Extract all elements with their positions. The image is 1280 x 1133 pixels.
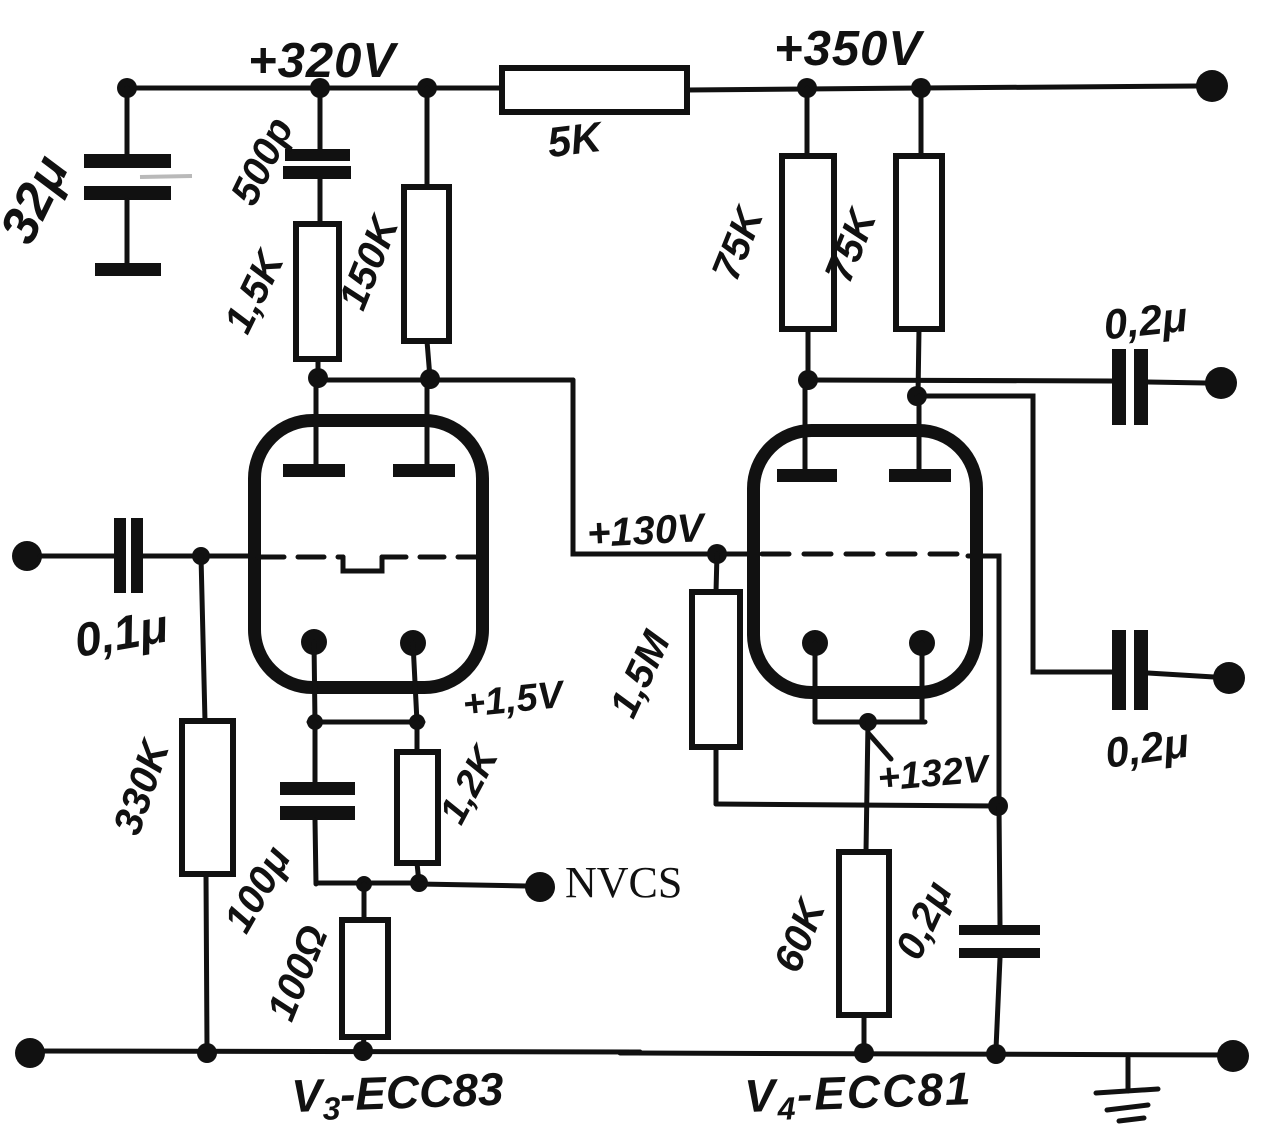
resistor 330K [182,556,233,1049]
value label 5K [545,113,607,167]
resistor 75K right [896,88,942,396]
node grid2 junction [988,796,1008,816]
svg-text:0,2μ: 0,2μ [1102,719,1191,777]
label V3 = ECC83 [291,1063,505,1128]
tube V4 grid dashed line [762,552,968,557]
node terminal top right [1196,70,1228,102]
label +350V [774,22,925,76]
value label 60K [766,891,835,978]
value label 330K [105,732,179,840]
node rail at 60K [854,1043,874,1063]
tube V3 ECC83 envelope [255,421,483,688]
ground [1096,1058,1158,1121]
label +132V with arrow [869,734,993,800]
label +320V [248,34,399,88]
value label 500p [223,111,303,212]
value label 100ohm [259,919,336,1026]
svg-text:75K: 75K [704,199,773,286]
node on rail at 500p cap [310,78,330,98]
node rail at 0.2u [986,1044,1006,1064]
node V3 cathode right junction [409,714,425,730]
svg-text:V3-ECC83: V3-ECC83 [291,1063,505,1128]
wire V4 grid2 exit right [968,556,999,806]
tube V4 cathode right [909,630,935,722]
svg-text:500p: 500p [223,111,303,212]
resistor 1.5M [692,554,740,804]
value label 150K [331,208,409,316]
node NVCS junction [410,874,428,892]
wire V3 anode bus [318,378,573,383]
node terminal bottom left [15,1038,45,1068]
svg-text:+132V: +132V [876,748,993,800]
wire ground rail [30,1051,1233,1055]
svg-text:1,2K: 1,2K [432,738,508,831]
tube V4 right anode [889,396,951,482]
wire V4 cathode to 60K [866,722,868,852]
node V4 cathode junction [859,713,877,731]
svg-text:+350V: +350V [774,22,925,76]
node on rail at 150K [417,78,437,98]
svg-text:V4-ECC81: V4-ECC81 [744,1062,974,1128]
wire V4 plate1 to output cap 1 [808,380,1112,381]
node rail at 330K [197,1043,217,1063]
node rail at 100ohm [353,1041,373,1061]
wire grid junction to V3 [201,554,256,559]
value label 1,5M [601,623,679,724]
value label 0,2u cathode [887,875,961,966]
label +130V [586,506,708,556]
node V4 anode junction right [907,386,927,406]
label +1,5V [461,674,568,727]
svg-text:32μ: 32μ [0,147,80,253]
value label 0,1u [70,599,171,667]
node 100ohm junction [356,876,372,892]
node V4 grid1 junction [707,544,727,564]
wire input to 0.1u [40,554,114,559]
node V3 anode junction right [420,369,440,389]
resistor 5K [502,68,687,112]
node input terminal [12,541,42,571]
svg-text:0,2μ: 0,2μ [887,875,961,966]
svg-text:150K: 150K [331,208,409,316]
tube V4 left anode [777,380,837,482]
tube V4 ECC81 envelope [754,431,977,693]
value label 0,2u top [1101,293,1189,348]
svg-text:60K: 60K [766,891,835,978]
svg-text:NVCS: NVCS [565,858,682,907]
capacitor 0.2u cathode [959,806,1040,1049]
resistor 150K [404,88,449,378]
node output terminal 2 [1213,662,1245,694]
svg-text:0,1μ: 0,1μ [70,599,171,667]
wire V3 cathode bottom bus [316,881,419,886]
svg-text:+130V: +130V [586,506,708,556]
node NVCS terminal [525,872,555,902]
node on rail at 75K left [797,78,817,98]
node V3 cathode left junction [307,714,323,730]
capacitor 0.2u output 1 [1112,349,1206,425]
svg-text:+1,5V: +1,5V [461,674,568,727]
tube V3 grid dashed line with notch [258,557,480,571]
capacitor 0.2u output 2 [1112,630,1214,710]
resistor 1.5K [296,224,339,378]
value label 0,2u middle [1102,719,1191,777]
svg-text:5K: 5K [545,113,607,167]
tube V3 cathode right [400,630,426,722]
capacitor 32u [84,88,192,276]
svg-text:0,2μ: 0,2μ [1101,293,1189,348]
wire V3 anode to V4 grid [573,380,752,554]
resistor 1.2K [397,722,438,883]
wire +350V rail to right terminal [921,86,1198,88]
node on rail at 75K right [911,78,931,98]
wire +350V rail segment [687,88,921,90]
node on rail at 32u cap [117,78,137,98]
svg-text:1,5M: 1,5M [601,623,679,724]
node output terminal 1 [1205,367,1237,399]
node input grid junction [192,547,210,565]
capacitor 0.1u [114,518,201,593]
value label 1,5K [216,242,294,340]
capacitor 100u [280,722,355,884]
label NVCS [565,858,682,907]
tube V3 right anode [393,379,455,477]
svg-text:100Ω: 100Ω [259,919,336,1026]
wire V4 cathode bus [815,720,925,725]
resistor 75K left [782,88,834,380]
wire to NVCS terminal [419,884,526,886]
svg-text:330K: 330K [105,732,179,840]
value label 75K right [817,201,886,288]
value label 1,2K [432,738,508,831]
wire 1.5M bottom to grid2 [716,804,998,806]
node V4 anode junction left [798,370,818,390]
tube V4 cathode left [802,630,828,722]
wire V4 plate2 to output cap 2 [917,396,1112,672]
tube V3 cathode left [301,629,327,722]
tube V3 left anode [283,378,345,477]
value label 75K left [704,199,773,286]
resistor 60K [839,852,889,1049]
label V4 = ECC81 [744,1062,974,1128]
wire +320V rail left segment [127,86,502,91]
svg-text:1,5K: 1,5K [216,242,294,340]
value label 32u [0,147,80,253]
node terminal bottom right [1217,1040,1249,1072]
wire V3 cathode bus [309,720,423,725]
resistor 100ohm [342,884,388,1049]
value label 100u [216,839,300,940]
capacitor 500p [283,88,351,224]
node V3 anode junction left [308,368,328,388]
